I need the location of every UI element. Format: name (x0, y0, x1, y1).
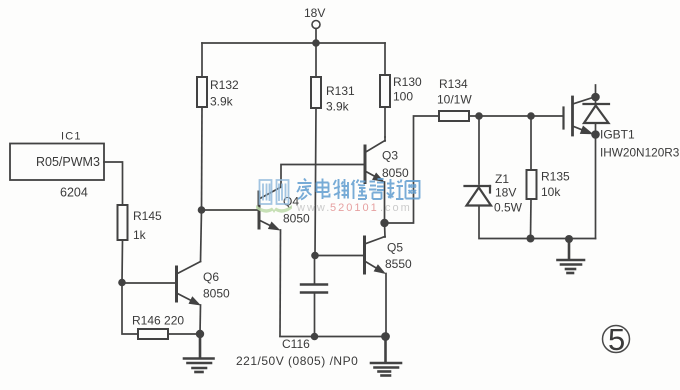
svg-text:8050: 8050 (203, 287, 230, 301)
label R145 1k (133, 209, 162, 242)
svg-text:3.9k: 3.9k (210, 95, 234, 109)
watermark (256, 179, 420, 215)
wire Q3 emitter to node E (384, 182, 386, 223)
svg-text:5: 5 (608, 322, 625, 357)
svg-text:.com: .com (380, 202, 412, 214)
svg-text:R134: R134 (439, 77, 468, 91)
svg-text:IHW20N120R3: IHW20N120R3 (600, 146, 680, 160)
resistor R134 (439, 111, 469, 121)
wire rail to R130 (384, 43, 386, 75)
resistor R131 (311, 77, 321, 108)
svg-text:R130: R130 (393, 75, 422, 89)
wire node B to Q5 base (315, 255, 365, 257)
wire to Z1 (478, 116, 480, 184)
figure number 5 (603, 322, 630, 357)
label R132 3.9k (210, 78, 239, 109)
svg-text:10/1W: 10/1W (437, 93, 472, 107)
wire node C down to R146 (122, 283, 138, 335)
wire bottom rail (Q4 emitter to Q5 emitter) (280, 336, 386, 338)
svg-text:R145: R145 (133, 209, 162, 223)
transistor Q5 (365, 237, 387, 275)
wire Q4 collector to Q3 base (281, 165, 365, 188)
junction R135 top (527, 112, 535, 120)
wire R132 to node A (201, 107, 204, 210)
resistor R132 (197, 77, 207, 107)
wire R131 to node B (315, 108, 316, 256)
junction 18V rail (312, 39, 320, 47)
wire rail to R131 (315, 43, 317, 77)
resistor R146 (138, 329, 168, 339)
wire node A to Q4 base (202, 209, 260, 211)
junction node A (R132/Q4 base/Q6 collector) (198, 206, 206, 214)
junction node F (bottom rail/ground) (381, 332, 390, 341)
svg-text:IC1: IC1 (61, 131, 82, 143)
svg-text:3.9k: 3.9k (326, 100, 350, 114)
svg-text:Q5: Q5 (387, 241, 403, 255)
svg-text:8550: 8550 (385, 257, 412, 271)
transistor Q6 (177, 262, 202, 306)
svg-text:www.: www. (296, 202, 331, 214)
wire node C to Q6 base (122, 282, 177, 284)
18V supply terminal (312, 21, 320, 44)
label R135 10k (541, 170, 570, 200)
svg-text:10k: 10k (541, 185, 561, 199)
svg-text:Q6: Q6 (203, 270, 219, 284)
IC U1 box (10, 144, 104, 181)
junction R135 bottom (527, 235, 535, 243)
label Z1 18V 0.5W (494, 172, 523, 215)
zener Z1 (465, 186, 492, 206)
svg-text:0.5W: 0.5W (494, 201, 523, 215)
svg-text:100: 100 (393, 90, 413, 104)
junction node E (Q3 emitter/Q5 collector/output) (380, 219, 388, 227)
wire R135 to bottom wire (530, 199, 533, 239)
junction node D (R146/Q6 emitter/ground) (196, 330, 204, 338)
transistor Q3 (365, 141, 385, 183)
label Q3 8050 (382, 149, 409, 181)
svg-text:C116: C116 (282, 337, 310, 351)
svg-text:8050: 8050 (382, 166, 409, 180)
wire Q5 emitter down (385, 274, 387, 337)
wire IC1 output to R145 (104, 162, 123, 205)
wire IGBT emitter down (595, 135, 597, 239)
svg-text:Z1: Z1 (495, 172, 509, 186)
wire Z1 to bottom wire (479, 206, 596, 239)
label Q5 8550 (385, 241, 412, 272)
label R134 10/1W (437, 77, 472, 107)
svg-text:Q3: Q3 (382, 149, 398, 163)
label Q6 8050 (203, 270, 230, 301)
wire R134 to IGBT gate (469, 115, 563, 117)
svg-text:R135: R135 (541, 170, 570, 184)
wire node A to Q6 collector (201, 210, 202, 262)
svg-text:R132: R132 (210, 78, 239, 92)
wire R146 to node D (168, 333, 200, 335)
wire Q6 emitter to node D (199, 305, 202, 334)
ground (left, Q6 emitter) (184, 334, 214, 372)
junction node C (R145/Q6 base/R146) (118, 279, 126, 287)
svg-text:18V: 18V (304, 6, 325, 20)
transistor Q4 (259, 187, 281, 231)
wire C116 to bottom rail (314, 293, 316, 337)
svg-text:IGBT1: IGBT1 (600, 128, 635, 142)
svg-text:R05/PWM3: R05/PWM3 (36, 155, 100, 169)
wire Q5 collector to node E (384, 223, 387, 237)
wire R145 to node C (121, 240, 124, 283)
wire R130 to Q3 collector (384, 107, 386, 137)
svg-text:18V: 18V (495, 186, 516, 200)
junction Z1 top (475, 112, 483, 120)
wire rail to R132 (201, 43, 203, 77)
wire node B to C116 (314, 256, 316, 285)
ground (middle, bottom rail) (371, 337, 401, 376)
label R131 3.9k (326, 84, 355, 114)
junction ground right (565, 235, 573, 243)
resistor R130 (380, 75, 390, 107)
svg-text:1k: 1k (133, 228, 147, 242)
svg-text:221/50V (0805) /NP0: 221/50V (0805) /NP0 (236, 354, 358, 368)
wire to R135 (530, 116, 532, 170)
svg-text:R131: R131 (326, 84, 355, 98)
resistor R145 (118, 205, 128, 240)
svg-text:520101: 520101 (330, 202, 379, 214)
label Q4 8050 (283, 195, 310, 226)
wire node E to R134 (385, 116, 440, 223)
svg-text:6204: 6204 (60, 186, 88, 200)
junction IGBT emitter (591, 130, 600, 139)
wire 18V rail (202, 42, 385, 44)
label R130 100 (393, 75, 422, 104)
junction node B (R131/Q5 base/C116) (311, 252, 319, 260)
wire Q3 collector up (384, 137, 386, 141)
capacitor C116 (301, 285, 327, 293)
junction IGBT collector (591, 93, 600, 102)
junction C116 bottom (311, 333, 319, 341)
svg-text:R146 220: R146 220 (132, 314, 184, 328)
wire Q4 emitter down (279, 230, 282, 336)
label IGBT1 IHW20N120R3 (600, 128, 680, 160)
ground (right) (558, 239, 585, 273)
IGBT Q1 symbol (564, 85, 610, 135)
resistor R135 (527, 170, 537, 199)
